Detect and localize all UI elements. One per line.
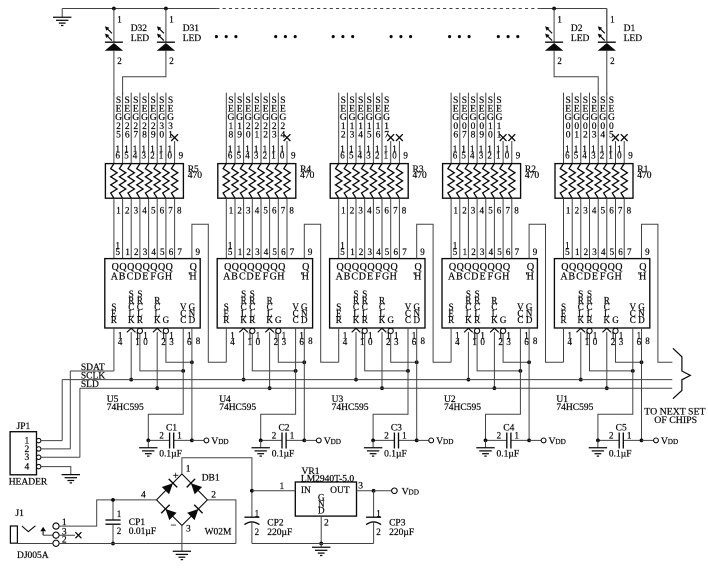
junction: VR1 OUT / CP3	[372, 489, 376, 493]
junction: U5 SRCLR/VCC	[181, 369, 185, 373]
svg-text:0: 0	[566, 131, 571, 141]
svg-text:D: D	[246, 272, 253, 283]
wire: R1 outputs to U1	[564, 198, 625, 258]
svg-text:7: 7	[515, 247, 520, 257]
svg-text:2: 2	[255, 527, 260, 537]
svg-text:5: 5	[574, 150, 579, 160]
svg-text:5: 5	[228, 247, 233, 257]
svg-text:2: 2	[575, 205, 580, 215]
capacitor C1 0.1µF	[148, 423, 192, 459]
wire: R3 outputs to U3	[339, 198, 400, 258]
svg-text:LED: LED	[571, 34, 590, 44]
svg-text:1: 1	[496, 150, 501, 160]
svg-text:470: 470	[413, 171, 428, 181]
svg-text:2: 2	[487, 150, 492, 160]
svg-text:2: 2	[237, 205, 242, 215]
svg-text:H: H	[302, 272, 309, 283]
svg-text:1: 1	[238, 247, 243, 257]
svg-text:6: 6	[340, 150, 345, 160]
wire: U4 RCLK to SLD bus	[269, 332, 271, 388]
capacitor C3 0.1µF	[373, 423, 417, 459]
svg-text:D2: D2	[571, 24, 583, 34]
svg-text:4: 4	[343, 337, 348, 347]
svg-text:B: B	[568, 272, 575, 283]
capacitor CP1 0.01µF	[105, 500, 156, 544]
svg-text:C1: C1	[166, 423, 177, 433]
no-connect X (R3 pin 9)	[396, 134, 403, 163]
svg-text:DD: DD	[409, 488, 419, 496]
svg-text:B: B	[231, 272, 238, 283]
svg-text:K: K	[353, 315, 360, 325]
ground (C4)	[476, 440, 494, 456]
svg-text:6: 6	[116, 150, 121, 160]
svg-text:0: 0	[168, 150, 173, 160]
wire: U4 pin 16 to C2	[261, 328, 296, 440]
no-connect X (R2 pin 9)	[508, 134, 515, 163]
svg-text:1: 1	[515, 431, 520, 441]
wire: U4 QH&#39; cascade	[304, 224, 338, 362]
svg-text:74HC595: 74HC595	[107, 403, 144, 413]
svg-text:JP1: JP1	[17, 422, 31, 432]
svg-text:K: K	[128, 315, 135, 325]
node SEG06	[451, 93, 459, 164]
svg-text:1: 1	[280, 482, 285, 492]
svg-text:9: 9	[179, 150, 184, 160]
wire: U4 SER from cascade	[225, 328, 227, 362]
node SEG04	[598, 93, 606, 164]
junction: LED anode taps on top rail	[112, 7, 556, 11]
LED D32	[105, 9, 150, 66]
svg-text:4: 4	[582, 150, 587, 160]
svg-text:C: C	[127, 272, 134, 283]
svg-text:2: 2	[117, 56, 122, 66]
svg-text:8: 8	[229, 131, 234, 141]
net SLD	[80, 380, 672, 457]
svg-text:6: 6	[453, 131, 458, 141]
svg-text:2: 2	[609, 431, 614, 441]
svg-text:1: 1	[610, 15, 615, 25]
svg-text:7: 7	[133, 131, 138, 141]
svg-text:4: 4	[24, 463, 29, 473]
wire: JP1 pin 1 to SCLK	[41, 440, 62, 442]
svg-text:8: 8	[471, 131, 476, 141]
svg-text:4: 4	[230, 337, 235, 347]
wire: top common rail	[62, 8, 607, 10]
svg-text:8: 8	[514, 205, 519, 215]
svg-text:C: C	[517, 315, 523, 325]
svg-text:5: 5	[385, 247, 390, 257]
wire: DB1 + output to VR1 IN	[182, 458, 252, 491]
svg-text:G: G	[500, 315, 507, 325]
svg-text:1: 1	[557, 15, 562, 25]
svg-text:8: 8	[196, 336, 201, 346]
svg-text:1: 1	[255, 508, 260, 518]
svg-text:7: 7	[627, 247, 632, 257]
svg-text:R: R	[362, 315, 368, 325]
wire: U3 G to GND net	[391, 333, 417, 362]
svg-text:G: G	[387, 315, 394, 325]
wire: U5 RCLK to SLD bus	[156, 332, 158, 388]
svg-text:3: 3	[583, 205, 588, 215]
svg-text:G: G	[157, 272, 164, 283]
svg-text:74HC595: 74HC595	[219, 403, 256, 413]
svg-text:G: G	[612, 315, 619, 325]
svg-text:220µF: 220µF	[267, 528, 292, 538]
svg-text:C5: C5	[616, 423, 627, 433]
svg-text:6: 6	[394, 247, 399, 257]
svg-text:R: R	[137, 315, 143, 325]
no-connect X (R5 pin 9)	[171, 134, 178, 163]
svg-text:4: 4	[142, 205, 147, 215]
svg-text:E: E	[367, 272, 373, 283]
svg-text:C: C	[351, 272, 358, 283]
svg-text:2: 2	[375, 150, 380, 160]
svg-text:1: 1	[116, 205, 121, 215]
svg-text:5: 5	[488, 205, 493, 215]
junction: U2 RCLK/SLD	[493, 386, 497, 390]
svg-text:DD: DD	[555, 438, 565, 446]
wire: U2 SER from cascade	[450, 328, 452, 362]
node Vdd (C3)	[417, 436, 454, 447]
svg-text:2: 2	[600, 150, 605, 160]
svg-text:1: 1	[186, 465, 191, 475]
wire: U5 pin 16 to C1	[148, 328, 183, 440]
svg-text:5: 5	[497, 247, 502, 257]
svg-text:8: 8	[142, 131, 147, 141]
svg-text:C2: C2	[278, 423, 289, 433]
node SEG29	[149, 93, 157, 164]
svg-text:4: 4	[480, 205, 485, 215]
svg-text:74HC595: 74HC595	[444, 403, 481, 413]
node SEG24	[278, 93, 286, 164]
svg-text:1: 1	[585, 337, 590, 347]
node SEG09	[477, 93, 485, 164]
wire: U1 QH&#39; cascade	[642, 224, 673, 362]
svg-text:K: K	[266, 315, 273, 325]
ground (C2)	[252, 440, 270, 456]
wire: U3 SRCLK to SCLK bus	[355, 332, 357, 380]
svg-text:LED: LED	[624, 34, 643, 44]
svg-text:470: 470	[637, 171, 652, 181]
junction: U1 RCLK/SLD	[605, 386, 609, 390]
svg-text:DD: DD	[331, 438, 341, 446]
svg-text:470: 470	[300, 171, 315, 181]
svg-text:6: 6	[609, 205, 614, 215]
svg-text:K: K	[465, 315, 472, 325]
svg-text:1: 1	[376, 508, 381, 518]
svg-text:D: D	[189, 315, 196, 325]
resistor network R5 470	[105, 144, 202, 215]
wire: U3 SRCLR to VCC net	[365, 333, 408, 371]
svg-text:4: 4	[133, 150, 138, 160]
node SEG17	[382, 93, 390, 164]
svg-text:K: K	[578, 315, 585, 325]
svg-text:2: 2	[246, 247, 251, 257]
svg-text:4: 4	[264, 247, 269, 257]
svg-text:6: 6	[272, 205, 277, 215]
wire: U1 pin 16 to C5	[598, 328, 633, 440]
junction: U2 SRCLR/VCC	[519, 369, 523, 373]
svg-text:1: 1	[229, 205, 234, 215]
svg-text:3: 3	[506, 337, 511, 347]
node SEG27	[131, 93, 139, 164]
svg-text:4: 4	[118, 337, 123, 347]
svg-text:6: 6	[565, 150, 570, 160]
junction: VR1 GND / rail	[319, 542, 323, 546]
svg-text:G: G	[494, 272, 501, 283]
junction: U4 G/GND	[302, 360, 306, 364]
svg-text:4: 4	[151, 247, 156, 257]
svg-text:2: 2	[376, 527, 381, 537]
junction: CP1 leads	[111, 498, 115, 545]
svg-text:9: 9	[628, 150, 633, 160]
ground (C5)	[589, 440, 607, 456]
svg-text:2: 2	[159, 431, 164, 441]
svg-text:1: 1	[566, 205, 571, 215]
ground (C3)	[364, 440, 382, 456]
svg-text:9: 9	[196, 247, 201, 257]
svg-text:8: 8	[177, 205, 182, 215]
wire: U2 SRCLR to VCC net	[477, 333, 520, 371]
svg-text:0: 0	[505, 150, 510, 160]
no-connect X (J1 pin 3)	[59, 532, 82, 538]
svg-text:2: 2	[211, 490, 216, 500]
svg-text:3: 3	[186, 525, 191, 535]
svg-text:0.1µF: 0.1µF	[272, 450, 295, 460]
svg-text:F: F	[263, 272, 269, 283]
svg-text:E: E	[142, 272, 148, 283]
wire: AC1 rail to bridge pin 4	[113, 491, 157, 501]
svg-text:LM2940T-5.0: LM2940T-5.0	[301, 475, 354, 485]
node SEG16	[373, 93, 381, 164]
ground (VR1)	[312, 544, 330, 556]
svg-text:D: D	[471, 272, 478, 283]
wire: JP1 pin 4 to ground	[41, 467, 71, 475]
svg-text:K: K	[604, 315, 611, 325]
svg-text:1: 1	[117, 509, 122, 519]
node SEG05	[607, 93, 615, 164]
node SEG20	[244, 93, 252, 164]
svg-text:1: 1	[463, 247, 468, 257]
svg-text:4: 4	[376, 247, 381, 257]
svg-text:5: 5	[461, 150, 466, 160]
svg-text:C: C	[180, 315, 186, 325]
svg-text:9: 9	[308, 247, 313, 257]
svg-text:D: D	[526, 315, 533, 325]
junction: U5 RCLK/SLD	[155, 386, 159, 390]
svg-text:DD: DD	[218, 438, 228, 446]
svg-text:3: 3	[142, 150, 147, 160]
svg-text:1: 1	[608, 150, 613, 160]
svg-text:5: 5	[376, 205, 381, 215]
IC U5 74HC595	[105, 240, 201, 413]
svg-text:5: 5	[237, 150, 242, 160]
svg-text:2: 2	[497, 431, 502, 441]
svg-text:3: 3	[350, 131, 355, 141]
wire: U1 G to GND net	[616, 333, 642, 362]
svg-text:G: G	[382, 272, 389, 283]
svg-text:A: A	[560, 272, 568, 283]
no-connect X (R3 pin 10)	[387, 134, 394, 163]
no-connect X (R2 pin 10)	[500, 134, 507, 163]
svg-text:3: 3	[591, 150, 596, 160]
svg-text:R: R	[249, 315, 255, 325]
resistor network R3 470	[330, 144, 427, 215]
junction: CP2 / VR1 IN	[250, 489, 254, 493]
svg-text:3: 3	[358, 205, 363, 215]
svg-text:2: 2	[125, 205, 130, 215]
node SEG25	[114, 93, 122, 164]
svg-text:3: 3	[134, 205, 139, 215]
svg-text:D: D	[584, 272, 591, 283]
ground (C1)	[139, 440, 157, 456]
junction: U1 G/GND	[640, 360, 644, 364]
svg-text:1: 1	[360, 337, 365, 347]
resistor network R1 470	[555, 144, 652, 215]
svg-text:9: 9	[403, 150, 408, 160]
svg-text:4: 4	[489, 247, 494, 257]
svg-text:6: 6	[376, 131, 381, 141]
resistor network R4 470	[218, 144, 315, 215]
svg-text:2: 2	[263, 150, 268, 160]
svg-text:D32: D32	[131, 24, 148, 34]
svg-text:H: H	[277, 272, 284, 283]
wire: U2 RCLK to SLD bus	[493, 332, 495, 388]
IC U4 74HC595	[217, 240, 313, 413]
svg-text:E: E	[479, 272, 485, 283]
svg-text:0: 0	[143, 337, 148, 347]
no-connect X (R1 pin 10)	[612, 134, 619, 163]
svg-text:0.1µF: 0.1µF	[497, 450, 520, 460]
wire: R5 outputs to U5	[114, 198, 175, 258]
svg-text:G: G	[270, 272, 277, 283]
junction: U4 SRCLK/SCLK	[242, 378, 246, 382]
wire: R2 outputs to U2	[451, 198, 512, 258]
svg-text:2: 2	[134, 247, 139, 257]
svg-text:1: 1	[159, 150, 164, 160]
svg-text:LED: LED	[131, 34, 150, 44]
svg-text:3: 3	[246, 205, 251, 215]
svg-text:F: F	[375, 272, 381, 283]
svg-text:HEADER: HEADER	[9, 477, 48, 487]
junction: U1 SRCLK/SCLK	[579, 378, 583, 382]
junction: U4 RCLK/SLD	[268, 386, 272, 390]
node SEG08	[468, 93, 476, 164]
junction: U3 SRCLK/SCLK	[354, 378, 358, 382]
svg-text:1: 1	[125, 247, 129, 257]
svg-text:9: 9	[516, 150, 521, 160]
svg-text:A: A	[223, 272, 231, 283]
capacitor CP2 220µF	[244, 491, 292, 544]
svg-text:B: B	[344, 272, 351, 283]
svg-text:4: 4	[470, 150, 475, 160]
svg-text:0: 0	[392, 150, 397, 160]
svg-text:1: 1	[177, 431, 182, 441]
junction: C5 leads	[596, 439, 643, 443]
svg-text:5: 5	[453, 247, 458, 257]
svg-text:6: 6	[125, 131, 130, 141]
svg-text:4: 4	[601, 247, 606, 257]
wire: JP1 pin 2 to SDAT	[41, 448, 70, 450]
junction: U2 SRCLK/SCLK	[467, 378, 471, 382]
svg-text:C: C	[239, 272, 246, 283]
svg-text:9: 9	[420, 247, 425, 257]
wire: U5 SRCLK to SCLK bus	[130, 332, 132, 380]
capacitor CP3 220µF	[366, 491, 414, 544]
node Vdd (C5)	[642, 436, 679, 447]
wire: U3 pin 8 to C3 / Vdd	[416, 328, 418, 440]
svg-text:8: 8	[533, 336, 538, 346]
svg-text:6: 6	[299, 337, 304, 347]
svg-text:IN: IN	[301, 486, 311, 496]
svg-text:R: R	[223, 315, 229, 325]
svg-text:6: 6	[187, 337, 192, 347]
wire: U3 SER from cascade	[338, 328, 340, 362]
svg-text:1: 1	[575, 247, 580, 257]
regulator VR1 LM2940T-5.0	[252, 467, 374, 544]
svg-text:K: K	[379, 315, 386, 325]
svg-text:2: 2	[471, 247, 476, 257]
svg-text:R: R	[111, 315, 117, 325]
svg-text:470: 470	[188, 171, 203, 181]
svg-text:7: 7	[393, 205, 398, 215]
node SEG13	[347, 93, 355, 164]
node Vdd (regulator output)	[374, 486, 419, 497]
LED D1	[598, 9, 643, 66]
node SEG01	[572, 93, 580, 164]
svg-text:2: 2	[584, 247, 589, 257]
junction: C3 leads	[371, 439, 418, 443]
node SEG28	[140, 93, 148, 164]
svg-text:8: 8	[402, 205, 407, 215]
svg-text:1: 1	[135, 337, 140, 347]
junction: C2 leads	[259, 439, 306, 443]
svg-text:B: B	[456, 272, 463, 283]
junction: U3 RCLK/SLD	[380, 386, 384, 390]
svg-text:H: H	[390, 272, 397, 283]
ground (DB1)	[173, 526, 191, 560]
svg-text:E: E	[592, 272, 598, 283]
svg-text:H: H	[614, 272, 621, 283]
svg-text:6: 6	[453, 150, 458, 160]
svg-text:DJ005A: DJ005A	[17, 551, 49, 561]
svg-text:0: 0	[480, 337, 485, 347]
svg-text:6: 6	[384, 205, 389, 215]
svg-text:3: 3	[272, 131, 277, 141]
svg-text:R: R	[586, 315, 592, 325]
svg-text:4: 4	[141, 491, 146, 501]
svg-text:3: 3	[471, 205, 476, 215]
svg-text:74HC595: 74HC595	[332, 403, 369, 413]
svg-text:9: 9	[291, 150, 296, 160]
svg-text:1: 1	[169, 15, 174, 25]
svg-text:−: −	[170, 521, 176, 532]
svg-text:3: 3	[255, 247, 260, 257]
svg-text:4: 4	[358, 131, 363, 141]
svg-text:D: D	[134, 272, 141, 283]
svg-text:2: 2	[117, 526, 122, 536]
ground (JP1)	[62, 475, 80, 483]
svg-text:7: 7	[618, 205, 623, 215]
svg-text:0: 0	[593, 337, 598, 347]
svg-text:3: 3	[479, 150, 484, 160]
wire: U5 SRCLR to VCC net	[140, 333, 183, 371]
svg-text:DD: DD	[668, 438, 678, 446]
wire: U1 SER from cascade	[563, 328, 565, 362]
svg-text:5: 5	[116, 131, 121, 141]
svg-text:4: 4	[358, 150, 363, 160]
svg-text:F: F	[600, 272, 606, 283]
